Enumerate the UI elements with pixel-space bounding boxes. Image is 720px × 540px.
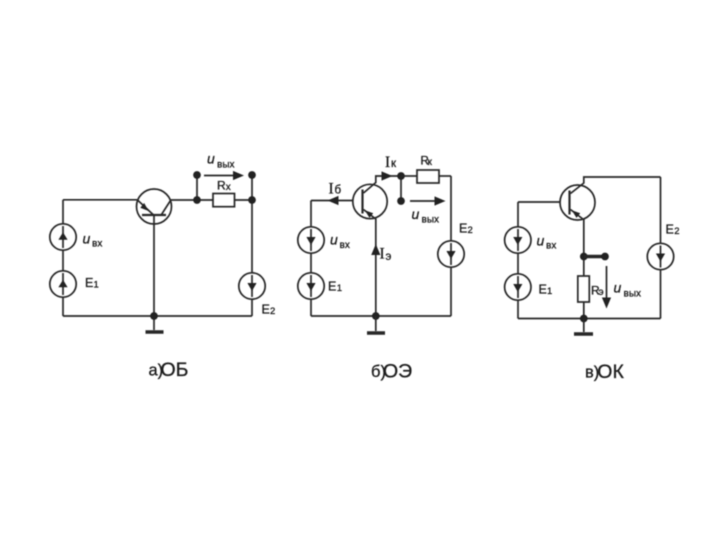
svg-text:E: E	[666, 222, 674, 236]
svg-text:к: к	[428, 157, 433, 168]
svg-text:E: E	[262, 303, 270, 317]
svg-text:1: 1	[94, 279, 99, 290]
svg-text:вых: вых	[422, 215, 440, 226]
svg-text:э: э	[599, 287, 604, 298]
svg-text:вх: вх	[340, 240, 350, 251]
svg-text:E: E	[85, 276, 93, 290]
svg-text:вх: вх	[546, 241, 556, 252]
svg-text:вых: вых	[624, 289, 642, 300]
svg-text:2: 2	[270, 306, 275, 317]
svg-text:б: б	[335, 185, 342, 197]
svg-text:х: х	[226, 182, 231, 193]
svg-text:2: 2	[674, 226, 679, 237]
svg-text:вых: вых	[217, 160, 235, 171]
svg-text:E: E	[459, 222, 467, 236]
svg-text:u: u	[207, 151, 215, 167]
svg-text:вх: вх	[92, 239, 102, 250]
svg-text:ОБ: ОБ	[161, 359, 189, 381]
svg-text:э: э	[386, 251, 392, 263]
svg-text:u: u	[412, 206, 420, 222]
svg-text:I: I	[385, 154, 390, 171]
svg-text:E: E	[539, 283, 547, 297]
svg-text:u: u	[330, 232, 338, 248]
svg-text:I: I	[329, 181, 334, 198]
svg-text:E: E	[328, 280, 336, 294]
svg-text:1: 1	[547, 286, 552, 297]
svg-text:u: u	[614, 280, 622, 296]
svg-text:u: u	[537, 233, 545, 249]
svg-text:ОК: ОК	[597, 361, 624, 383]
svg-text:к: к	[391, 158, 397, 170]
svg-text:1: 1	[337, 283, 342, 294]
svg-text:2: 2	[468, 225, 473, 236]
svg-text:I: I	[380, 246, 385, 263]
svg-text:ОЭ: ОЭ	[383, 361, 412, 383]
svg-text:R: R	[217, 179, 226, 193]
svg-text:u: u	[83, 231, 91, 247]
